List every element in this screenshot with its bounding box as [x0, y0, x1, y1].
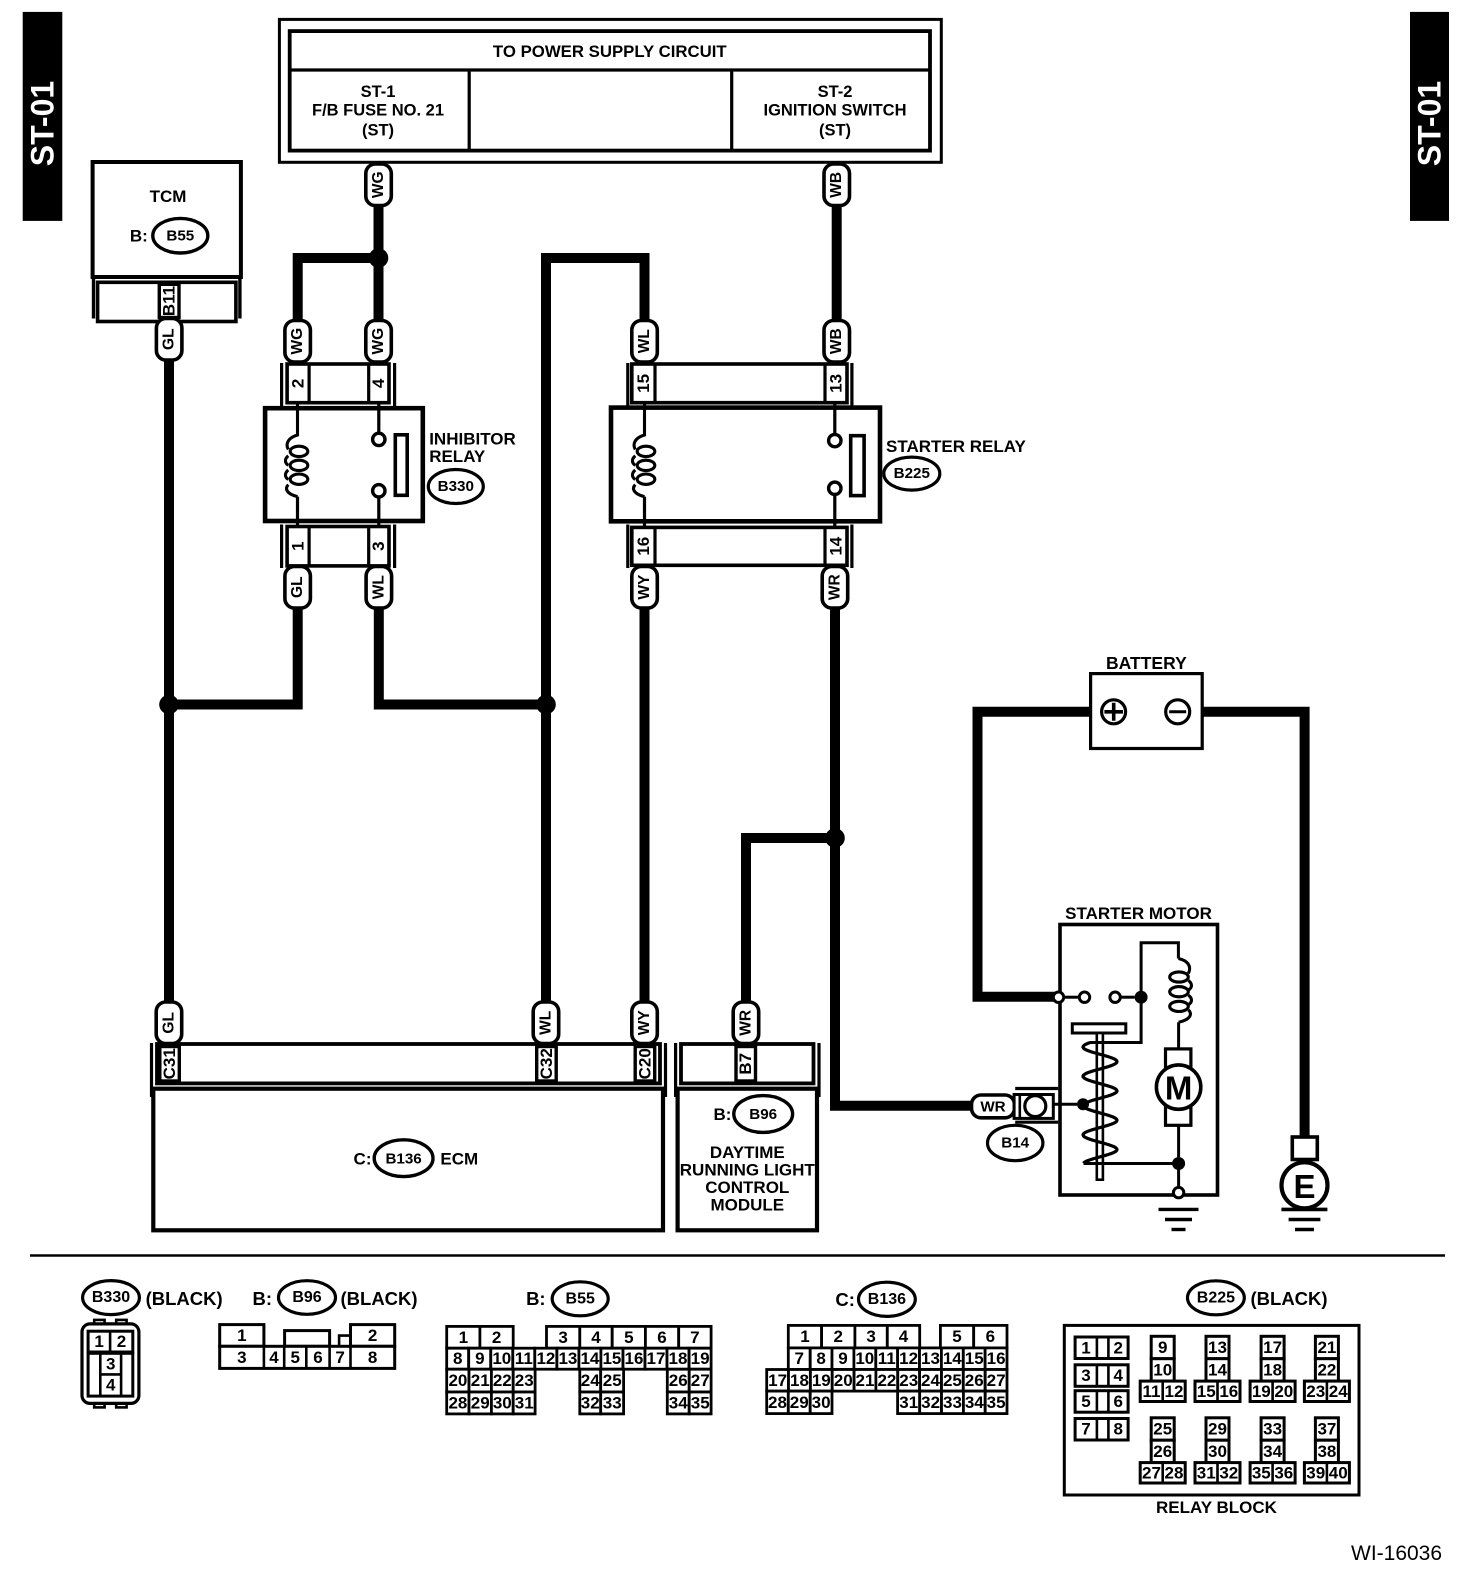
svg-text:5: 5 — [290, 1348, 299, 1367]
svg-text:1: 1 — [800, 1327, 809, 1346]
svg-text:16: 16 — [1219, 1382, 1238, 1401]
svg-text:40: 40 — [1329, 1463, 1348, 1482]
svg-text:INHIBITOR: INHIBITOR — [429, 430, 516, 449]
wire WL branch from inhibitor relay pin 3 — [379, 608, 546, 705]
svg-text:27: 27 — [1142, 1463, 1161, 1482]
svg-text:3: 3 — [558, 1328, 567, 1347]
svg-text:9: 9 — [838, 1349, 847, 1368]
svg-text:B225: B225 — [1197, 1289, 1235, 1306]
svg-text:20: 20 — [834, 1371, 853, 1390]
TCM connector strip B11 — [94, 277, 240, 322]
svg-text:34: 34 — [1263, 1442, 1282, 1461]
svg-text:B:: B: — [252, 1288, 272, 1309]
svg-text:RUNNING LIGHT: RUNNING LIGHT — [680, 1161, 816, 1180]
svg-text:4: 4 — [269, 1348, 279, 1367]
svg-text:14: 14 — [943, 1349, 962, 1368]
svg-text:7: 7 — [335, 1348, 344, 1367]
svg-text:M: M — [1165, 1070, 1193, 1107]
svg-text:BATTERY: BATTERY — [1106, 653, 1187, 673]
svg-text:15: 15 — [602, 1349, 621, 1368]
wire GL branch from inhibitor relay pin 1 — [169, 608, 298, 705]
node solenoid junction — [1077, 1098, 1089, 1110]
svg-text:3: 3 — [866, 1327, 875, 1346]
svg-text:21: 21 — [471, 1371, 490, 1390]
svg-text:(BLACK): (BLACK) — [341, 1288, 418, 1309]
svg-text:WG: WG — [289, 328, 306, 355]
svg-text:WL: WL — [636, 329, 653, 353]
svg-text:TO POWER SUPPLY CIRCUIT: TO POWER SUPPLY CIRCUIT — [493, 42, 727, 61]
svg-text:1: 1 — [288, 541, 307, 550]
svg-text:24: 24 — [1329, 1382, 1348, 1401]
inhibitor relay label — [429, 430, 516, 467]
svg-text:6: 6 — [986, 1327, 995, 1346]
ground E symbol — [1281, 1137, 1327, 1230]
svg-text:24: 24 — [921, 1371, 940, 1390]
wire label WY pin16 — [632, 567, 658, 609]
connector B225 (BLACK) pinout — [1188, 1281, 1328, 1315]
svg-text:B14: B14 — [1001, 1135, 1029, 1152]
svg-text:WL: WL — [370, 575, 387, 599]
svg-text:23: 23 — [515, 1371, 534, 1390]
svg-text:13: 13 — [1208, 1338, 1227, 1357]
svg-text:RELAY: RELAY — [429, 447, 486, 466]
separator line — [30, 1254, 1445, 1257]
connector B96 housing — [220, 1325, 395, 1369]
svg-text:4: 4 — [591, 1328, 601, 1347]
svg-text:WL: WL — [538, 1011, 555, 1035]
svg-text:1: 1 — [459, 1328, 468, 1347]
starter motor field coil — [1170, 959, 1192, 1049]
svg-text:B96: B96 — [749, 1106, 777, 1123]
svg-text:WY: WY — [636, 574, 653, 600]
svg-text:22: 22 — [493, 1371, 512, 1390]
svg-text:(BLACK): (BLACK) — [146, 1288, 223, 1309]
svg-text:WY: WY — [636, 1010, 653, 1036]
svg-text:16: 16 — [634, 537, 653, 556]
svg-text:4: 4 — [1113, 1366, 1123, 1385]
battery — [1091, 653, 1203, 749]
left sidebar label ST-01 — [23, 12, 63, 221]
svg-text:MODULE: MODULE — [710, 1196, 784, 1215]
connector B330 (BLACK) pinout — [83, 1281, 223, 1315]
svg-text:9: 9 — [475, 1349, 484, 1368]
ECM module B136 — [153, 1089, 663, 1231]
svg-text:15: 15 — [965, 1349, 984, 1368]
svg-text:B225: B225 — [894, 465, 931, 482]
starter motor M armature — [1156, 1049, 1200, 1157]
svg-text:12: 12 — [536, 1349, 555, 1368]
starter motor solenoid spring — [1083, 1043, 1117, 1164]
svg-text:8: 8 — [368, 1348, 377, 1367]
svg-text:WG: WG — [370, 328, 387, 355]
svg-text:13: 13 — [921, 1349, 940, 1368]
svg-text:2: 2 — [1113, 1338, 1122, 1357]
svg-text:B11: B11 — [160, 286, 179, 316]
svg-text:22: 22 — [877, 1371, 896, 1390]
svg-text:3: 3 — [106, 1354, 115, 1373]
svg-text:B:: B: — [526, 1288, 546, 1309]
node starter motor junction — [1172, 1157, 1185, 1170]
svg-text:6: 6 — [1113, 1392, 1122, 1411]
svg-text:C:: C: — [354, 1149, 372, 1168]
starter motor plunger — [1072, 1024, 1126, 1180]
starter motor ground pin — [1173, 1164, 1183, 1198]
wire label WG upper — [366, 164, 392, 206]
svg-text:28: 28 — [448, 1394, 467, 1413]
wire label WL pin3 — [366, 567, 392, 609]
wire label WB pin13 — [824, 321, 850, 363]
wire label WB upper — [824, 164, 850, 206]
svg-text:WG: WG — [370, 171, 387, 198]
daytime running light control module B96 — [678, 1089, 817, 1231]
svg-text:F/B FUSE NO. 21: F/B FUSE NO. 21 — [312, 102, 444, 120]
svg-text:33: 33 — [943, 1393, 962, 1412]
node GL junction — [159, 695, 179, 715]
svg-text:WI-16036: WI-16036 — [1351, 1542, 1442, 1565]
starter motor box — [1060, 904, 1218, 1195]
ground symbol under starter motor — [1159, 1209, 1199, 1229]
svg-text:20: 20 — [448, 1371, 467, 1390]
svg-text:2: 2 — [117, 1332, 126, 1351]
svg-text:C20: C20 — [635, 1048, 654, 1079]
svg-text:5: 5 — [1081, 1392, 1090, 1411]
svg-text:35: 35 — [987, 1393, 1006, 1412]
svg-text:3: 3 — [369, 541, 388, 550]
svg-text:ST-01: ST-01 — [1412, 81, 1448, 166]
svg-text:25: 25 — [943, 1371, 962, 1390]
svg-text:WB: WB — [828, 328, 845, 354]
svg-text:28: 28 — [1165, 1463, 1184, 1482]
svg-text:12: 12 — [1165, 1382, 1184, 1401]
connector B55 pinout — [526, 1282, 608, 1316]
svg-text:5: 5 — [624, 1328, 633, 1347]
svg-text:5: 5 — [952, 1327, 961, 1346]
ignition switch ST-2 (ST) — [764, 83, 907, 140]
wire battery negative to ground E — [1189, 712, 1305, 1136]
svg-text:18: 18 — [790, 1371, 809, 1390]
wire link from WR connector to solenoid — [1054, 1103, 1078, 1106]
svg-text:31: 31 — [899, 1393, 918, 1412]
svg-text:19: 19 — [691, 1349, 710, 1368]
svg-text:11: 11 — [1143, 1382, 1161, 1401]
connector B14 bullet — [1014, 1089, 1058, 1123]
svg-text:34: 34 — [669, 1394, 688, 1413]
starter motor switch contacts — [1053, 943, 1178, 1004]
wire WG from fuse ST-1 to inhibitor relay pins 2 and 4 — [298, 204, 379, 321]
svg-text:34: 34 — [965, 1393, 984, 1412]
connector B136 grid — [767, 1325, 1007, 1413]
svg-text:B:: B: — [713, 1105, 731, 1124]
svg-text:B96: B96 — [292, 1289, 321, 1306]
svg-text:16: 16 — [987, 1349, 1006, 1368]
svg-text:25: 25 — [1153, 1420, 1172, 1439]
svg-text:1: 1 — [94, 1332, 103, 1351]
wire WR from starter relay pin 14 to starter motor — [835, 608, 972, 1106]
svg-text:1: 1 — [237, 1326, 246, 1345]
wire label WG pin4 — [366, 321, 392, 363]
svg-text:19: 19 — [812, 1371, 831, 1390]
svg-text:C32: C32 — [537, 1048, 556, 1079]
svg-text:7: 7 — [794, 1349, 803, 1368]
starter relay coil — [632, 403, 654, 527]
relay block B225 — [1064, 1325, 1359, 1495]
wire WB from ignition switch ST-2 to starter relay pin 13 — [832, 204, 842, 321]
svg-text:B55: B55 — [566, 1290, 595, 1307]
wire label GL at ECM C31 — [156, 1002, 182, 1044]
svg-text:30: 30 — [1208, 1442, 1227, 1461]
svg-text:1: 1 — [1081, 1338, 1090, 1357]
svg-text:8: 8 — [453, 1349, 462, 1368]
wire label WY at ECM C20 — [632, 1002, 658, 1044]
svg-text:11: 11 — [878, 1349, 896, 1368]
svg-text:B136: B136 — [385, 1150, 421, 1167]
wire label WL at ECM C32 — [533, 1002, 559, 1044]
svg-text:WR: WR — [738, 1010, 755, 1036]
wire label WL pin15 — [632, 321, 658, 363]
svg-text:10: 10 — [492, 1349, 511, 1368]
svg-text:(ST): (ST) — [819, 122, 851, 140]
svg-text:23: 23 — [1306, 1382, 1325, 1401]
svg-text:STARTER MOTOR: STARTER MOTOR — [1065, 904, 1212, 923]
svg-text:4: 4 — [899, 1327, 909, 1346]
svg-text:2: 2 — [492, 1328, 501, 1347]
svg-text:23: 23 — [899, 1371, 918, 1390]
svg-text:4: 4 — [106, 1376, 116, 1395]
svg-text:24: 24 — [581, 1371, 600, 1390]
svg-text:6: 6 — [313, 1348, 322, 1367]
node WL junction — [536, 695, 556, 715]
svg-text:(ST): (ST) — [362, 122, 394, 140]
svg-text:27: 27 — [691, 1371, 710, 1390]
svg-text:4: 4 — [369, 378, 388, 388]
svg-text:37: 37 — [1317, 1420, 1336, 1439]
svg-text:13: 13 — [558, 1349, 577, 1368]
svg-text:21: 21 — [856, 1371, 875, 1390]
svg-text:ECM: ECM — [440, 1149, 478, 1168]
svg-text:2: 2 — [833, 1327, 842, 1346]
svg-text:15: 15 — [634, 374, 653, 393]
right sidebar label ST-01 — [1410, 12, 1449, 221]
svg-text:CONTROL: CONTROL — [705, 1178, 789, 1197]
svg-text:17: 17 — [1263, 1338, 1282, 1357]
svg-text:14: 14 — [827, 536, 846, 555]
svg-text:11: 11 — [515, 1349, 533, 1368]
svg-text:3: 3 — [237, 1348, 246, 1367]
svg-text:31: 31 — [1197, 1463, 1216, 1482]
TCM module B55 — [93, 162, 241, 277]
svg-text:30: 30 — [493, 1394, 512, 1413]
wire GL from TCM to ECM C31 — [164, 360, 174, 1004]
svg-text:3: 3 — [1081, 1366, 1090, 1385]
svg-text:38: 38 — [1317, 1442, 1336, 1461]
svg-text:18: 18 — [1263, 1360, 1282, 1379]
svg-text:30: 30 — [812, 1393, 831, 1412]
wire label WR pin14 — [822, 567, 848, 609]
fuse ST-1 F/B FUSE NO. 21 (ST) — [312, 83, 444, 140]
connector B330 housing — [82, 1320, 139, 1408]
svg-text:18: 18 — [669, 1349, 688, 1368]
node WR junction — [825, 828, 845, 848]
svg-text:WB: WB — [828, 172, 845, 198]
svg-text:12: 12 — [899, 1349, 918, 1368]
svg-text:35: 35 — [691, 1394, 710, 1413]
svg-text:ST-1: ST-1 — [361, 83, 396, 101]
wire label GL at TCM — [156, 319, 182, 361]
svg-text:E: E — [1293, 1168, 1315, 1205]
connector B96 (BLACK) pinout — [252, 1281, 417, 1315]
svg-text:GL: GL — [289, 576, 306, 598]
svg-text:9: 9 — [1158, 1338, 1167, 1357]
connector B225 oval — [884, 457, 940, 490]
svg-text:ST-01: ST-01 — [25, 81, 61, 166]
svg-text:32: 32 — [581, 1394, 600, 1413]
svg-text:26: 26 — [1153, 1442, 1172, 1461]
svg-text:26: 26 — [965, 1371, 984, 1390]
svg-text:2: 2 — [368, 1326, 377, 1345]
starter relay B225 body — [611, 408, 880, 522]
svg-text:14: 14 — [1208, 1360, 1227, 1379]
svg-text:RELAY BLOCK: RELAY BLOCK — [1156, 1498, 1278, 1517]
svg-text:26: 26 — [669, 1371, 688, 1390]
svg-text:25: 25 — [603, 1371, 622, 1390]
svg-text:B330: B330 — [438, 478, 474, 495]
svg-text:33: 33 — [603, 1394, 622, 1413]
svg-text:GL: GL — [161, 1012, 178, 1034]
svg-text:B55: B55 — [166, 228, 194, 245]
svg-text:TCM: TCM — [150, 187, 187, 206]
svg-text:B330: B330 — [92, 1289, 130, 1306]
inhibitor relay contact — [373, 403, 408, 527]
connector B14 oval — [988, 1125, 1043, 1160]
svg-text:13: 13 — [827, 374, 846, 393]
node WG junction — [369, 248, 389, 268]
svg-text:29: 29 — [1208, 1420, 1227, 1439]
link solenoid to motor — [1084, 1162, 1173, 1165]
svg-text:33: 33 — [1263, 1420, 1282, 1439]
svg-text:29: 29 — [471, 1394, 490, 1413]
svg-text:28: 28 — [768, 1393, 787, 1412]
wire WR branch to daytime running light module B7 — [746, 838, 835, 1003]
inhibitor relay coil — [285, 403, 307, 527]
starter relay contact — [829, 403, 865, 527]
svg-text:IGNITION SWITCH: IGNITION SWITCH — [764, 102, 907, 120]
svg-text:19: 19 — [1252, 1382, 1271, 1401]
connector B136 pinout — [835, 1282, 915, 1316]
wire label GL pin1 — [285, 567, 311, 609]
svg-text:32: 32 — [1219, 1463, 1238, 1482]
svg-text:WR: WR — [980, 1098, 1005, 1115]
inhibitor relay B330 connector strip top (pins 2,4) — [282, 363, 395, 407]
svg-text:2: 2 — [288, 379, 307, 388]
wire label WG pin2 — [285, 321, 311, 363]
svg-text:10: 10 — [1153, 1360, 1172, 1379]
svg-text:8: 8 — [816, 1349, 825, 1368]
svg-text:31: 31 — [515, 1394, 534, 1413]
wire label WR at starter motor — [972, 1095, 1015, 1118]
svg-text:20: 20 — [1274, 1382, 1293, 1401]
wire WL from ECM C32 to starter relay pin 15 — [546, 258, 645, 1003]
power supply circuit box — [279, 19, 941, 162]
svg-text:21: 21 — [1317, 1338, 1336, 1357]
svg-text:C31: C31 — [160, 1048, 179, 1079]
svg-text:14: 14 — [580, 1349, 599, 1368]
connector B55 grid — [447, 1326, 711, 1414]
daytime running light module connector strip (B7) — [676, 1043, 819, 1097]
svg-text:7: 7 — [690, 1328, 699, 1347]
inhibitor relay B330 connector strip bottom (pins 1,3) — [282, 525, 395, 569]
svg-text:8: 8 — [1113, 1420, 1122, 1439]
starter relay B225 connector strip top (pins 15,13) — [628, 363, 852, 407]
inhibitor relay B330 body — [265, 408, 423, 521]
svg-text:GL: GL — [161, 328, 178, 350]
svg-text:39: 39 — [1306, 1463, 1325, 1482]
wire label WR at DRL B7 — [733, 1002, 759, 1044]
svg-text:(BLACK): (BLACK) — [1251, 1288, 1328, 1309]
wire battery positive to starter motor switch — [978, 712, 1104, 997]
wire WY from starter relay pin 16 to ECM C20 — [640, 608, 650, 1004]
svg-text:36: 36 — [1274, 1463, 1293, 1482]
svg-text:ST-2: ST-2 — [818, 83, 853, 101]
svg-text:7: 7 — [1081, 1420, 1090, 1439]
svg-text:27: 27 — [987, 1371, 1006, 1390]
svg-text:17: 17 — [768, 1371, 787, 1390]
svg-text:17: 17 — [647, 1349, 666, 1368]
svg-text:35: 35 — [1252, 1463, 1271, 1482]
svg-text:B136: B136 — [868, 1291, 906, 1308]
svg-text:STARTER RELAY: STARTER RELAY — [886, 437, 1026, 456]
connector B330 oval — [428, 470, 483, 504]
svg-text:DAYTIME: DAYTIME — [710, 1143, 785, 1162]
svg-text:B:: B: — [130, 227, 148, 246]
svg-text:C:: C: — [835, 1289, 855, 1310]
ECM connector strip (C31, C32, C20) — [152, 1043, 666, 1097]
wire link solenoid coil to switch — [1090, 997, 1141, 1042]
svg-text:16: 16 — [625, 1349, 644, 1368]
svg-text:32: 32 — [921, 1393, 940, 1412]
svg-text:22: 22 — [1317, 1360, 1336, 1379]
svg-text:10: 10 — [855, 1349, 874, 1368]
svg-text:B7: B7 — [736, 1053, 755, 1075]
svg-text:15: 15 — [1197, 1382, 1216, 1401]
starter relay B225 connector strip bottom (pins 16,14) — [628, 525, 852, 569]
svg-text:6: 6 — [657, 1328, 666, 1347]
svg-text:29: 29 — [790, 1393, 809, 1412]
svg-text:WR: WR — [827, 574, 844, 600]
